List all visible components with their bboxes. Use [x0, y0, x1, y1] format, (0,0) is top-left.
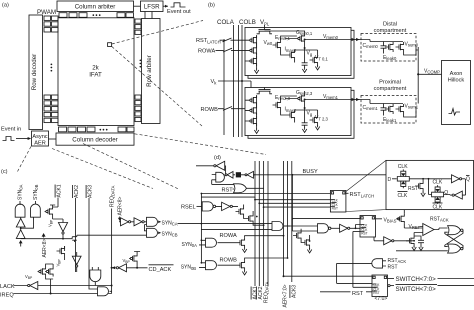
- bus wire COLB vertical 2: [241, 25, 243, 137]
- wire ACK2 vertical: [75, 198, 77, 272]
- wire column arbiter to LFSR: [134, 5, 141, 7]
- inverter D-I1b pointing left: [247, 171, 253, 178]
- inset wire to stage2: [429, 179, 432, 195]
- D-G2 input wires: [199, 240, 206, 245]
- G4 output: [110, 290, 112, 292]
- dashed zoom line: async AER to panel c: [18, 147, 32, 172]
- buffer C-T1 up: [16, 218, 25, 227]
- proximal cap wires: [370, 104, 403, 116]
- inset rst transistor: [415, 181, 423, 191]
- G5/G6 input wires: [145, 225, 147, 231]
- svg-text:Axon: Axon: [450, 71, 463, 77]
- and-right gate C-G4: [98, 287, 109, 296]
- svg-text:Proximal: Proximal: [379, 80, 401, 86]
- highlighted cell in array: [108, 43, 112, 47]
- node dots REQdata: [111, 267, 113, 269]
- latch1 input line D (y193.5): [201, 193, 330, 195]
- wire I5 to G5: [131, 221, 147, 223]
- nmos C-N2 with Vbp: [57, 246, 65, 256]
- svg-text:D: D: [388, 177, 392, 183]
- svg-text:RSTACK: RSTACK: [430, 216, 449, 222]
- block1 pmos row3: [249, 56, 257, 66]
- synapse block 1 (distal) stacked offset box: [248, 30, 354, 78]
- svg-text:SWITCH<7:0>: SWITCH<7:0>: [396, 276, 437, 283]
- wire ACK1 vertical: [57, 198, 59, 208]
- block2 cap ground: [302, 128, 306, 133]
- svg-text:CLK: CLK: [398, 164, 408, 170]
- node dot Vk: [241, 80, 243, 82]
- latch2: [360, 216, 376, 238]
- block1 nmos VT: [310, 55, 318, 65]
- transistor cluster D-TC2: [293, 231, 301, 241]
- block1 nmos Erev: [273, 40, 281, 50]
- svg-text:Q: Q: [444, 190, 448, 196]
- buffer C-T2 up: [16, 230, 25, 239]
- wire latch2 out to Vbias: [376, 218, 400, 220]
- SR cross wire 2: [445, 232, 463, 248]
- latch2 D input line: [292, 218, 360, 220]
- block2 pmos row1: [249, 95, 257, 105]
- svg-text:Vmem0: Vmem0: [323, 34, 339, 40]
- comparator output: [434, 228, 448, 230]
- block2 top feed: [264, 88, 266, 90]
- wire T2 down stub: [20, 243, 22, 247]
- D-G3 input wires: [199, 263, 206, 268]
- block1 VT drain wire: [305, 50, 318, 67]
- node dot Vmem0: [304, 39, 306, 41]
- latch1 input line CLK: [255, 199, 330, 201]
- svg-text:•••: •••: [92, 13, 102, 20]
- svg-text:AER<8>: AER<8>: [118, 197, 124, 216]
- D-Q1 source gnd: [242, 248, 246, 253]
- svg-text:Vsum0: Vsum0: [405, 42, 419, 48]
- svg-text:RST: RST: [222, 187, 234, 193]
- svg-text:COLB: COLB: [239, 19, 256, 26]
- svg-text:AER<8>: AER<8>: [42, 239, 48, 258]
- label AER8 vertical left: [42, 239, 48, 258]
- vertical wire x201.4: [200, 194, 202, 263]
- dashed zoom line: column decoder right to panel d bus: [135, 134, 267, 155]
- svg-text:RST: RST: [388, 264, 398, 270]
- cap D-C2: [418, 238, 424, 246]
- row arbiter box: [142, 19, 161, 124]
- D-Q2 source gnd: [242, 270, 246, 275]
- proximal nmos Vsum: [396, 104, 404, 114]
- label Vbp C-P1 vertical: [48, 219, 54, 227]
- inverter D-I0 top left pointing left: [216, 161, 225, 170]
- block1 pmos row1: [249, 35, 257, 45]
- svg-text:SYNCB: SYNCB: [162, 231, 178, 237]
- svg-text:ROWA: ROWA: [220, 233, 237, 239]
- svg-text:AER<7:0>: AER<7:0>: [282, 284, 288, 307]
- block2 pmos row3: [249, 116, 257, 126]
- block1 left stack wire: [256, 35, 258, 69]
- PWAM cells left bottom: [44, 95, 58, 123]
- wire Vmem0 into distal: [360, 40, 370, 42]
- svg-text:Vw0: Vw0: [264, 40, 273, 46]
- wire AER to latch3 D: [284, 275, 373, 277]
- block2 wires middle: [281, 91, 305, 123]
- block2 top current-source transistor: [257, 90, 272, 94]
- bottom label ACK3 overlined vertical: [290, 285, 297, 298]
- proximal out wire: [404, 109, 416, 117]
- svg-text:Vk: Vk: [211, 79, 218, 85]
- block2 ground left: [254, 129, 258, 134]
- latch2 RST input: [353, 231, 360, 233]
- svg-text:Vg: Vg: [307, 111, 313, 117]
- svg-text:LFSR: LFSR: [144, 3, 160, 10]
- inset feedback wire: [462, 179, 465, 195]
- wire LFSR to event out arrow: [163, 5, 168, 7]
- wire distal to Vcomp node: [416, 47, 418, 104]
- svg-text:SYN0A: SYN0A: [18, 184, 24, 200]
- label SYN0A vertical: [18, 184, 24, 200]
- PWAM cells left top: [44, 16, 58, 32]
- label REQdata vertical: [110, 185, 116, 207]
- latch3 out Q: [388, 278, 395, 280]
- svg-text:RST: RST: [352, 291, 364, 297]
- nand D-N1 top left: [216, 172, 225, 182]
- arrow AER8 down to wire: [118, 218, 122, 221]
- arrow event in to async AER: [16, 138, 28, 140]
- spike waveform glyph: [449, 109, 461, 116]
- svg-text:RSTACK: RSTACK: [388, 258, 407, 264]
- D-G1 output (joins N3 input): [284, 225, 290, 227]
- svg-text:Cmem1: Cmem1: [363, 105, 379, 111]
- svg-text:AER: AER: [34, 141, 46, 147]
- nand D-N3: [318, 224, 329, 233]
- vertical wire x292.4 from BUSY: [291, 175, 293, 231]
- svg-text:ROWB: ROWB: [201, 107, 219, 113]
- wire gate2 input jog to chain: [21, 217, 34, 228]
- svg-text:ACK3: ACK3: [291, 285, 297, 298]
- vertical bus line REQdata: [263, 161, 265, 286]
- svg-text:compartment: compartment: [374, 86, 407, 92]
- block1 VT ground: [315, 65, 319, 70]
- label ACK3 overlined vertical: [86, 185, 93, 198]
- block1 pmos row2: [249, 45, 257, 55]
- bottom label AER70 vertical: [282, 284, 288, 307]
- node dot P4 source: [136, 267, 138, 269]
- svg-text:REQDATA: REQDATA: [263, 281, 269, 303]
- latch3 out Qbar: [388, 285, 390, 287]
- svg-text:VT 0,1: VT 0,1: [315, 55, 328, 61]
- bottom label ACK2 vertical: [256, 286, 263, 299]
- inset wire tgate2 to invL: [444, 194, 454, 197]
- latch1 input line CLKb: [259, 202, 330, 204]
- comparator input wires: [414, 227, 423, 233]
- wire Vk row: [218, 81, 251, 88]
- svg-text:Column arbiter: Column arbiter: [75, 3, 116, 10]
- bottom label REQdata vertical: [263, 281, 269, 303]
- label SYN0B vertical: [33, 184, 39, 200]
- construction line latch1 to inset bottom: [346, 210, 386, 212]
- D-N1 input loop wire: [212, 175, 234, 185]
- svg-text:(d): (d): [214, 155, 221, 161]
- block2 left stack wire: [256, 95, 258, 129]
- node dot IREQ/pmos: [50, 293, 52, 295]
- wire vertical from RSTlatch junction: [223, 40, 225, 135]
- svg-text:SYN0B: SYN0B: [181, 265, 197, 271]
- node dot Vmem1: [304, 99, 306, 101]
- block2 pmos Gsyn: [297, 94, 305, 104]
- inline transistor C-N1 jog: [72, 235, 77, 242]
- buffer C-I5a left of invR: [121, 218, 131, 226]
- svg-text:Q: Q: [466, 177, 470, 183]
- wire RSTlatch row: [220, 39, 246, 41]
- block1 top current-source transistor: [257, 30, 272, 34]
- transistor D-Q2: [237, 260, 245, 270]
- dashed zoom line: cell to synapse block1: [112, 21, 203, 45]
- latch1 output wire: [346, 192, 349, 194]
- svg-text:SYNCA: SYNCA: [162, 220, 178, 226]
- BUSY wire: [254, 174, 387, 176]
- inset inverter left lower: [454, 191, 462, 199]
- event in pulse waveform: [3, 137, 15, 141]
- wire D-N1 to I1a: [225, 174, 236, 176]
- svg-text:•••: •••: [136, 59, 143, 69]
- svg-text:Eleak1: Eleak1: [383, 117, 397, 123]
- svg-text:SYN0B: SYN0B: [33, 184, 39, 200]
- dashed zoom line: cell to synapse block2: [112, 47, 202, 127]
- wire LACK line: [14, 285, 112, 287]
- block2 VT ground: [315, 125, 319, 130]
- svg-text:RSEL: RSEL: [181, 205, 196, 211]
- block2 nmos Imax: [287, 110, 295, 120]
- D-P1 wires: [404, 210, 422, 228]
- inverter D-I2 after RSEL nand: [222, 202, 231, 210]
- row decoder box: [29, 15, 43, 130]
- wire Vmem1 into proximal: [360, 100, 370, 104]
- inverter D-I1a small pointing left: [227, 172, 233, 179]
- node dot Vcomp: [417, 73, 419, 75]
- wire CD_ACK line left: [112, 267, 116, 269]
- arrow AER8 up: [42, 233, 46, 237]
- node dots latch1 inputs: [254, 199, 256, 201]
- wire second line y197: [201, 197, 255, 200]
- block2 pmos row2: [249, 105, 257, 115]
- latch1 RSTlatch: [330, 191, 346, 213]
- chain hline right to G6: [77, 234, 147, 236]
- block1 input stubs: [245, 40, 249, 61]
- svg-text:VBIAS: VBIAS: [384, 217, 397, 223]
- svg-text:Eleak0: Eleak0: [383, 55, 397, 61]
- inset tgate1: [397, 169, 409, 188]
- G3 stubs: [92, 267, 98, 286]
- svg-text:Hillock: Hillock: [448, 78, 465, 84]
- pmos D-P1 Vbias: [396, 214, 404, 224]
- Vmem0 double arrow: [352, 38, 360, 41]
- vertical bus line 6: [287, 161, 289, 258]
- block2 capacitor: [302, 120, 308, 128]
- inverter C-I2 down: [72, 256, 81, 264]
- column arbiter box: [57, 1, 134, 12]
- latch1 input line RST: [264, 206, 331, 208]
- D-Q2 drain wire up: [245, 258, 288, 260]
- D-A2 input stubs + labels: [383, 261, 387, 266]
- right side cells column: [135, 19, 141, 122]
- inverter C-I5 right (buffer to SYN gates): [134, 218, 144, 226]
- inset wire invR out: [462, 178, 465, 180]
- proximal capacitor: [381, 105, 387, 113]
- wire CD_ACK line right: [127, 267, 148, 269]
- chain hline left: [21, 238, 72, 240]
- block1 VPL feed: [264, 28, 266, 30]
- node dot Vg: [304, 47, 306, 49]
- wire SYN0A stub: [19, 201, 21, 205]
- nor gate D-X1 (SR latch): [448, 226, 461, 235]
- wire T1-T2 with dot: [20, 227, 22, 230]
- vertical bus line 4: [267, 161, 269, 286]
- svg-text:IFAT: IFAT: [89, 72, 102, 79]
- svg-text:RST: RST: [408, 186, 418, 192]
- bottom label ACK1 overlined vertical: [251, 286, 258, 299]
- inset tgate2: [432, 185, 444, 204]
- svg-text:compartment: compartment: [374, 28, 407, 34]
- svg-text:ROWA: ROWA: [198, 49, 215, 55]
- wire row arbiter to LFSR: [144, 12, 146, 19]
- svg-text:BUSY: BUSY: [303, 169, 319, 175]
- svg-text:LACK: LACK: [0, 284, 15, 290]
- construction line latch1 to inset top: [346, 160, 386, 191]
- wire async AER to column decoder: [49, 138, 57, 140]
- distal nmos Vsum: [396, 42, 404, 52]
- synapse block 1 main box: [245, 28, 351, 76]
- async AER box: [32, 131, 49, 146]
- Vmem1 double arrow: [352, 98, 360, 101]
- wire N3 to I3: [331, 227, 340, 229]
- wire ROWA row: [216, 49, 246, 51]
- block1 ground left: [254, 69, 258, 74]
- and gate D-G2: [206, 238, 217, 247]
- left-pointing and gate D-A2 (RSTack): [372, 259, 383, 268]
- nor gate D-X2 (SR latch): [448, 244, 461, 253]
- G5 output + label SYNca: [159, 221, 161, 223]
- and-down gate C-G3: [90, 270, 101, 282]
- block1 wires middle: [265, 31, 305, 63]
- D-O1 wires: [233, 187, 264, 190]
- block1 pmos Gsyn: [297, 34, 305, 44]
- block1 nmos Imax: [287, 50, 295, 60]
- svg-text:CLK: CLK: [398, 193, 408, 199]
- svg-text:Distal: Distal: [383, 22, 397, 28]
- wire I2 stubs: [65, 246, 77, 272]
- wire switchbar continue: [438, 285, 474, 287]
- switch on ROWA row: [223, 48, 232, 52]
- svg-text:Event out: Event out: [167, 9, 191, 15]
- gate C-G2 and-up: [31, 204, 41, 217]
- svg-text:Event in: Event in: [1, 127, 21, 133]
- distal out wire: [404, 47, 416, 55]
- D-A2 output wire to latch3: [337, 263, 372, 283]
- pmos C-P1 with Vbp: [45, 207, 53, 217]
- label ACK1 overlined vertical: [55, 184, 62, 197]
- inverter C-I4 left: [119, 264, 127, 272]
- block1 cap ground: [302, 68, 306, 73]
- bus wire VPL vertical: [264, 25, 266, 29]
- vline x352.9 to latch3: [353, 232, 372, 288]
- wire I3 to latch2: [350, 225, 360, 229]
- wire I1 out: [62, 234, 64, 239]
- svg-text:RSTLATCH: RSTLATCH: [350, 192, 375, 198]
- svg-text:Vmem1: Vmem1: [323, 94, 339, 100]
- event out pulse waveform: [171, 3, 186, 7]
- column decoder box: [56, 133, 134, 145]
- G6 output + label SYNcb: [159, 232, 161, 234]
- nmos D-N4 with cap: [406, 236, 414, 246]
- svg-text:Vg: Vg: [307, 51, 313, 57]
- label Vbp C-N2 vertical: [56, 258, 62, 266]
- vertical bus line AER70: [283, 161, 285, 276]
- svg-text:RSTLATCH: RSTLATCH: [196, 38, 221, 44]
- SR cross wire 1: [445, 230, 463, 246]
- distal compartment dashed box: [361, 34, 416, 62]
- wire pmos pair tops: [46, 264, 54, 267]
- switch on RSTlatch row: [223, 38, 232, 42]
- and gate D-G3: [206, 261, 217, 270]
- wire RSEL: [197, 205, 203, 207]
- node dot Vg2: [304, 107, 306, 109]
- axon hillock box: [442, 61, 471, 125]
- block1 capacitor: [302, 60, 308, 68]
- black square element: [236, 172, 241, 177]
- svg-text:Vsum1: Vsum1: [405, 104, 419, 110]
- inset detail box: [386, 160, 474, 209]
- vertical bus line ACK1: [254, 161, 256, 286]
- inverter C-I3 left: [30, 282, 38, 290]
- label AER8 vertical right: [118, 197, 124, 216]
- switch on ROWB row: [223, 107, 232, 111]
- svg-text:REQDATA: REQDATA: [110, 185, 116, 207]
- and gate C-G6 SYNcb: [147, 228, 158, 237]
- distal capacitor: [381, 43, 387, 51]
- svg-text:ACK3: ACK3: [88, 185, 94, 198]
- wire IREQ line: [14, 293, 112, 295]
- svg-text:VREF: VREF: [409, 224, 421, 230]
- svg-text:CD_ACK: CD_ACK: [149, 267, 172, 273]
- svg-text:Cmem0: Cmem0: [363, 43, 379, 49]
- proximal compartment dashed box: [361, 96, 416, 124]
- wire Vmem0 output: [305, 39, 351, 41]
- wire Vcomp to axon hillock: [418, 73, 441, 75]
- inset wire tgate1 out (node A): [410, 178, 452, 180]
- svg-text:SWITCH<7:0>: SWITCH<7:0>: [396, 286, 437, 293]
- svg-text:(a): (a): [2, 3, 9, 9]
- pmos pair C-P3: [45, 267, 53, 277]
- svg-text:Row decoder: Row decoder: [31, 54, 38, 90]
- wires RSEL chain: [216, 205, 238, 207]
- bottom cells row: [59, 127, 135, 132]
- arrow up into T2: [19, 240, 23, 243]
- dashed zoom line: column decoder to panel d (lower): [83, 144, 179, 190]
- D-G2 output to Q1: [218, 242, 237, 244]
- pmos pair C-P2: [38, 267, 46, 277]
- node dots x201.4: [201, 193, 203, 195]
- svg-text:VCOMP: VCOMP: [424, 69, 440, 75]
- svg-text:ACK2: ACK2: [74, 185, 80, 198]
- vertical bus line ACK3: [291, 161, 293, 282]
- block2 VT drain wire: [305, 110, 318, 127]
- P4 drain T-bar: [134, 252, 140, 268]
- wire ACK3 vertical: [89, 198, 98, 289]
- svg-text:CLK: CLK: [433, 204, 443, 210]
- inset wire D to tgate1: [392, 178, 397, 180]
- transistor D-Q1: [237, 238, 245, 248]
- DAC cell row under column arbiter: [59, 13, 134, 18]
- synapse block 2 main box: [245, 88, 351, 136]
- synapse block 2 (proximal) stacked offset box: [248, 90, 354, 138]
- wire Vmem1 output: [305, 99, 351, 101]
